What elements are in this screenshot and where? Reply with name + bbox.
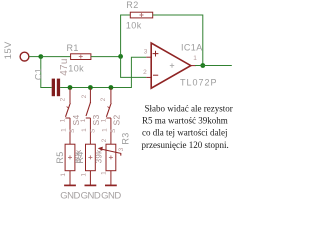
svg-text:GND: GND — [60, 191, 80, 202]
op-amp U1 (IC1A TL072P) — [151, 43, 191, 88]
resistor R4 — [86, 144, 96, 171]
svg-text:1: 1 — [60, 173, 67, 177]
wire R2 to output node — [153, 15, 203, 66]
junction at S2 branch — [109, 85, 114, 90]
svg-text:1: 1 — [81, 128, 88, 132]
svg-text:S: S — [69, 128, 76, 133]
svg-text:1: 1 — [80, 173, 87, 177]
svg-text:1: 1 — [193, 55, 197, 62]
svg-text:1: 1 — [80, 118, 87, 122]
svg-text:IC1A: IC1A — [181, 43, 203, 53]
output wire — [195, 65, 232, 67]
junction at S3 branch — [88, 85, 93, 90]
resistor R2 — [130, 12, 152, 18]
svg-text:S: S — [90, 128, 97, 133]
wire node B to pin 2 — [121, 56, 147, 77]
svg-text:15V: 15V — [3, 41, 14, 59]
ground under R3 — [101, 171, 121, 202]
pin 2 stub — [146, 76, 151, 78]
svg-text:1: 1 — [101, 171, 108, 175]
capacitor C1 — [52, 79, 60, 97]
wire R1 to node B — [91, 56, 121, 58]
resistor R1 — [71, 54, 91, 60]
wire C1 to op-amp pin3 net — [60, 57, 146, 87]
svg-text:2: 2 — [100, 97, 107, 101]
svg-text:2: 2 — [81, 94, 88, 98]
svg-text:R4: R4 — [75, 151, 85, 163]
switch S2 — [100, 88, 122, 144]
svg-text:R3: R3 — [120, 132, 130, 144]
trimmer resistor R3 — [106, 144, 116, 171]
svg-text:C1: C1 — [34, 68, 44, 80]
svg-text:1: 1 — [60, 118, 67, 122]
svg-text:10k: 10k — [126, 20, 142, 30]
pin 3 stub — [146, 56, 151, 58]
svg-text:TL072P: TL072P — [180, 78, 218, 88]
node B junction — [118, 54, 123, 59]
svg-text:R5 ma wartość 39kohm: R5 ma wartość 39kohm — [142, 116, 228, 126]
svg-text:co dla tej wartości dalej: co dla tej wartości dalej — [142, 128, 227, 138]
pin 1 output stub — [191, 65, 196, 67]
svg-text:2: 2 — [101, 138, 108, 142]
switch S4 — [59, 88, 81, 144]
trimmer R3 wiper arrow — [98, 147, 121, 156]
junction at S4 branch — [68, 85, 73, 90]
wire node A down to C1 — [41, 57, 52, 88]
svg-text:R1: R1 — [67, 43, 79, 53]
svg-text:S: S — [110, 128, 117, 133]
wire node B up to R2 — [121, 15, 131, 56]
svg-text:S2: S2 — [112, 115, 122, 126]
svg-text:10k: 10k — [68, 64, 84, 74]
svg-text:1: 1 — [101, 128, 108, 132]
svg-text:1: 1 — [60, 128, 67, 132]
svg-text:2: 2 — [143, 69, 147, 76]
switch S3 — [80, 88, 101, 144]
svg-text:1: 1 — [101, 118, 108, 122]
node A junction — [38, 54, 43, 59]
svg-text:GND: GND — [81, 191, 101, 202]
svg-text:R5: R5 — [55, 151, 65, 163]
wire supply to node A — [29, 56, 41, 58]
resistor R5 — [65, 144, 75, 171]
svg-text:przesunięcie 120 stopni.: przesunięcie 120 stopni. — [142, 140, 229, 150]
ground under R4 — [81, 171, 101, 202]
wire node A to R1 — [41, 56, 71, 58]
svg-text:Słabo widać ale rezystor: Słabo widać ale rezystor — [145, 103, 233, 113]
svg-text:3: 3 — [118, 147, 125, 151]
svg-text:39k: 39k — [94, 149, 103, 163]
svg-text:3: 3 — [144, 48, 148, 55]
supply +15V terminal circle — [20, 52, 29, 61]
svg-text:R2: R2 — [126, 0, 138, 10]
ground under R5 — [60, 171, 80, 202]
svg-text:GND: GND — [101, 191, 121, 202]
svg-text:2: 2 — [59, 97, 66, 101]
output node junction — [200, 63, 205, 68]
